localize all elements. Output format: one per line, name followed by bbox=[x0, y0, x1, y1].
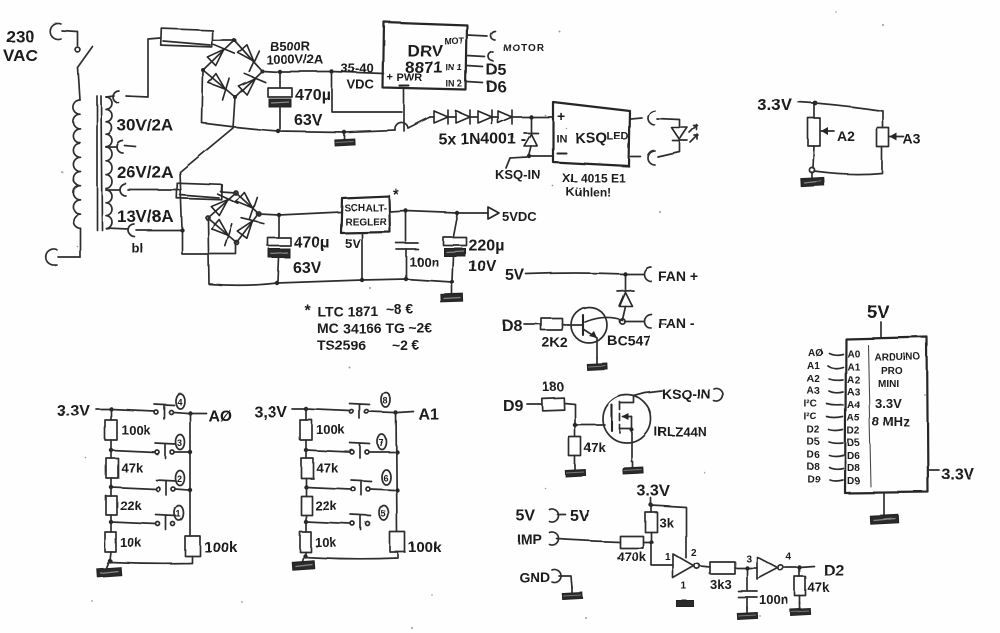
svg-text:D5: D5 bbox=[847, 438, 860, 449]
svg-text:*: * bbox=[304, 302, 311, 319]
svg-text:3.3V: 3.3V bbox=[757, 95, 793, 114]
svg-text:D8: D8 bbox=[807, 462, 820, 473]
svg-text:bl: bl bbox=[131, 240, 143, 255]
svg-text:A0: A0 bbox=[847, 349, 860, 360]
svg-text:26V/2A: 26V/2A bbox=[117, 163, 174, 182]
svg-text:IN 1: IN 1 bbox=[446, 63, 463, 73]
svg-text:1: 1 bbox=[176, 509, 181, 519]
svg-text:100n: 100n bbox=[409, 254, 439, 269]
svg-text:A5: A5 bbox=[847, 413, 860, 424]
svg-text:IN: IN bbox=[556, 133, 567, 145]
svg-text:47k: 47k bbox=[121, 460, 143, 475]
svg-text:2: 2 bbox=[177, 474, 182, 484]
svg-text:A3: A3 bbox=[807, 386, 820, 397]
svg-text:A1: A1 bbox=[419, 407, 440, 424]
svg-text:100k: 100k bbox=[316, 422, 346, 437]
svg-text:6: 6 bbox=[383, 473, 388, 483]
svg-text:7: 7 bbox=[379, 438, 384, 448]
svg-text:MOTOR: MOTOR bbox=[503, 43, 545, 54]
svg-text:IRLZ44N: IRLZ44N bbox=[654, 424, 707, 439]
svg-text:IN 2: IN 2 bbox=[446, 79, 463, 89]
svg-text:8 MHz: 8 MHz bbox=[872, 414, 910, 429]
svg-text:A1: A1 bbox=[807, 361, 820, 372]
svg-text:D2: D2 bbox=[824, 563, 845, 580]
svg-text:A1: A1 bbox=[847, 362, 860, 373]
svg-text:5V: 5V bbox=[505, 267, 525, 284]
svg-text:TS2596: TS2596 bbox=[317, 337, 366, 353]
svg-text:230: 230 bbox=[6, 27, 34, 46]
svg-text:10V: 10V bbox=[468, 258, 497, 275]
svg-text:D5: D5 bbox=[807, 437, 820, 448]
svg-text:47k: 47k bbox=[584, 440, 606, 455]
svg-text:22k: 22k bbox=[315, 498, 337, 513]
svg-text:D9: D9 bbox=[808, 475, 821, 486]
svg-text:5VDC: 5VDC bbox=[502, 209, 537, 224]
svg-text:5V: 5V bbox=[570, 508, 590, 525]
svg-text:D6: D6 bbox=[807, 450, 820, 461]
svg-text:1: 1 bbox=[681, 581, 687, 592]
svg-text:3: 3 bbox=[746, 554, 752, 565]
svg-text:KSQ-IN: KSQ-IN bbox=[662, 386, 711, 402]
svg-text:D8: D8 bbox=[502, 318, 523, 335]
svg-text:4: 4 bbox=[177, 397, 182, 407]
svg-text:47k: 47k bbox=[316, 460, 338, 475]
svg-text:D8: D8 bbox=[847, 463, 860, 474]
svg-text:A2: A2 bbox=[807, 374, 820, 385]
svg-text:LED: LED bbox=[607, 131, 629, 143]
svg-text:IMP: IMP bbox=[517, 531, 542, 547]
svg-text:3.3V: 3.3V bbox=[875, 396, 902, 411]
svg-text:3.3V: 3.3V bbox=[941, 466, 974, 483]
svg-text:VDC: VDC bbox=[347, 77, 375, 92]
svg-text:I²C: I²C bbox=[804, 399, 817, 410]
svg-text:180: 180 bbox=[542, 379, 564, 394]
svg-text:Kühlen!: Kühlen! bbox=[566, 185, 611, 199]
svg-text:13V/8A: 13V/8A bbox=[117, 207, 174, 226]
svg-text:+: + bbox=[557, 108, 565, 124]
svg-text:GND: GND bbox=[519, 569, 550, 585]
svg-text:8: 8 bbox=[383, 396, 388, 406]
svg-text:5: 5 bbox=[381, 509, 386, 519]
svg-text:2: 2 bbox=[691, 548, 697, 559]
svg-text:ARDUINO: ARDUINO bbox=[874, 352, 921, 363]
svg-text:A2: A2 bbox=[837, 128, 855, 144]
svg-text:XL 4015 E1: XL 4015 E1 bbox=[562, 171, 625, 185]
svg-text:10k: 10k bbox=[315, 535, 337, 550]
svg-text:REGLER: REGLER bbox=[345, 217, 387, 228]
svg-text:~8 €: ~8 € bbox=[386, 301, 414, 317]
svg-text:5x 1N4001 -: 5x 1N4001 - bbox=[438, 131, 526, 148]
svg-text:A3: A3 bbox=[903, 131, 921, 147]
svg-text:100k: 100k bbox=[408, 539, 442, 556]
svg-text:1000V/2A: 1000V/2A bbox=[266, 52, 324, 67]
svg-text:D5: D5 bbox=[486, 62, 507, 79]
svg-text:MOT: MOT bbox=[444, 36, 464, 46]
svg-text:100k: 100k bbox=[204, 539, 238, 556]
svg-text:3.3V: 3.3V bbox=[637, 483, 670, 500]
svg-text:220µ: 220µ bbox=[468, 237, 504, 254]
svg-text:5V: 5V bbox=[867, 302, 889, 322]
svg-text:D9: D9 bbox=[503, 398, 524, 415]
svg-text:VAC: VAC bbox=[3, 46, 38, 65]
svg-text:BC547: BC547 bbox=[607, 332, 651, 348]
svg-text:5V: 5V bbox=[345, 236, 361, 251]
svg-text:D2: D2 bbox=[807, 425, 820, 436]
svg-text:*: * bbox=[393, 187, 400, 204]
svg-text:D6: D6 bbox=[847, 451, 860, 462]
svg-text:KSQ: KSQ bbox=[575, 130, 608, 147]
svg-text:AØ: AØ bbox=[208, 408, 232, 425]
svg-text:LTC 1871: LTC 1871 bbox=[317, 303, 378, 319]
svg-text:63V: 63V bbox=[293, 260, 322, 277]
svg-text:10k: 10k bbox=[120, 535, 142, 550]
svg-text:1: 1 bbox=[665, 552, 671, 563]
svg-text:3k: 3k bbox=[659, 515, 674, 530]
svg-text:FAN +: FAN + bbox=[658, 268, 698, 284]
svg-text:2K2: 2K2 bbox=[542, 334, 568, 350]
svg-text:5V: 5V bbox=[516, 508, 536, 525]
svg-text:D9: D9 bbox=[847, 476, 860, 487]
svg-text:A4: A4 bbox=[847, 400, 860, 411]
svg-text:470k: 470k bbox=[617, 549, 647, 564]
svg-text:MINI: MINI bbox=[878, 379, 899, 390]
svg-text:3k3: 3k3 bbox=[710, 577, 732, 592]
svg-text:AØ: AØ bbox=[808, 348, 823, 359]
svg-text:35-40: 35-40 bbox=[341, 61, 374, 76]
svg-text:KSQ-IN: KSQ-IN bbox=[495, 167, 541, 182]
svg-text:FAN -: FAN - bbox=[658, 315, 695, 331]
svg-text:22k: 22k bbox=[120, 498, 142, 513]
svg-text:470µ: 470µ bbox=[295, 87, 331, 104]
svg-text:100k: 100k bbox=[121, 422, 151, 437]
svg-text:D2: D2 bbox=[847, 426, 860, 437]
svg-text:30V/2A: 30V/2A bbox=[117, 116, 174, 135]
svg-text:D6: D6 bbox=[486, 79, 507, 96]
svg-text:+ PWR: + PWR bbox=[387, 72, 422, 84]
svg-text:A2: A2 bbox=[847, 375, 860, 386]
svg-text:4: 4 bbox=[786, 552, 792, 563]
svg-text:3,3V: 3,3V bbox=[254, 404, 287, 421]
svg-text:~2 €: ~2 € bbox=[392, 337, 420, 353]
svg-text:3: 3 bbox=[177, 438, 182, 448]
svg-text:63V: 63V bbox=[294, 112, 323, 129]
svg-text:SCHALT-: SCHALT- bbox=[344, 203, 387, 214]
svg-text:I²C: I²C bbox=[804, 412, 817, 423]
svg-text:PRO: PRO bbox=[881, 366, 903, 377]
svg-text:MC 34166 TG ~2€: MC 34166 TG ~2€ bbox=[317, 320, 433, 336]
svg-text:A3: A3 bbox=[847, 387, 860, 398]
svg-text:100n: 100n bbox=[759, 592, 789, 607]
svg-text:3.3V: 3.3V bbox=[57, 403, 90, 420]
svg-text:470µ: 470µ bbox=[294, 235, 330, 252]
svg-text:47k: 47k bbox=[808, 580, 830, 595]
